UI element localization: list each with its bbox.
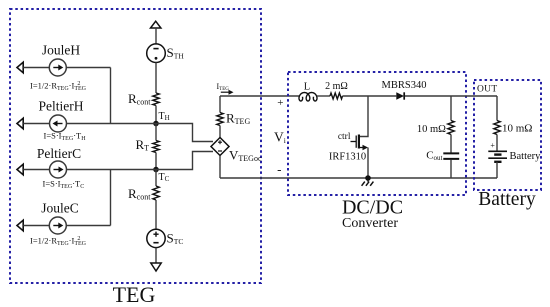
wire <box>496 135 498 152</box>
junction (source-ground rail) <box>365 175 371 181</box>
svg-text:PeltierH: PeltierH <box>39 99 84 114</box>
thermal down arrow (cold side) <box>151 263 161 271</box>
wire <box>155 153 157 170</box>
dependent source VTEGoc (diamond) <box>211 138 229 156</box>
battery cell symbol <box>488 151 507 162</box>
label PeltierH <box>39 99 84 114</box>
svg-text:JouleH: JouleH <box>42 43 80 58</box>
diode MBRS340 <box>396 92 404 99</box>
svg-text:I=S·ITEG·TC: I=S·ITEG·TC <box>43 179 85 190</box>
label JouleH <box>42 43 80 58</box>
svg-text:TEG: TEG <box>113 282 156 307</box>
wire <box>155 124 157 141</box>
wire (source) <box>367 148 369 179</box>
svg-text:Rcont: Rcont <box>128 91 151 107</box>
label JouleC <box>41 201 79 216</box>
svg-text:ITEG: ITEG <box>217 82 230 92</box>
label DC/DC <box>342 197 403 219</box>
svg-text:10 mΩ: 10 mΩ <box>502 123 532 135</box>
label MBRS340 <box>382 80 427 91</box>
wire <box>66 225 110 227</box>
resistor 10 mOhm (output) <box>448 121 454 135</box>
ground (chassis) <box>362 178 374 186</box>
svg-text:Battery: Battery <box>510 151 542 162</box>
label TC <box>159 172 170 183</box>
svg-text:Vi: Vi <box>274 130 286 145</box>
svg-text:-: - <box>277 162 281 177</box>
svg-text:Cout: Cout <box>426 150 442 162</box>
wire (battery branch) <box>496 96 498 121</box>
wire <box>219 156 221 179</box>
svg-text:I=1/2·RTEG·ITEG2: I=1/2·RTEG·ITEG2 <box>30 236 87 247</box>
wire <box>23 169 49 171</box>
PeltierH input terminal <box>17 118 23 129</box>
thermal up arrow (hot side) <box>151 21 161 28</box>
label PeltierC <box>37 146 81 161</box>
svg-text:L: L <box>304 82 310 93</box>
svg-text:STH: STH <box>167 45 185 60</box>
ITEG arrow <box>221 90 234 95</box>
svg-text:Rcont: Rcont <box>128 186 151 202</box>
label ITEG current <box>217 82 230 92</box>
capacitor Cout <box>443 153 459 159</box>
wire <box>450 96 452 121</box>
wire <box>343 95 397 97</box>
resistor RT <box>153 141 159 153</box>
label L <box>304 82 310 93</box>
label 10 mOhm (output) <box>417 124 446 135</box>
svg-text:2 mΩ: 2 mΩ <box>325 81 348 92</box>
svg-text:I=1/2·RTEG·ITEG2: I=1/2·RTEG·ITEG2 <box>30 81 87 92</box>
value PeltierC current <box>43 179 85 190</box>
value JouleH current <box>30 81 87 92</box>
temperature source STH <box>147 44 166 63</box>
label Vi <box>274 130 286 145</box>
wire <box>155 170 157 187</box>
JouleC input terminal <box>17 220 23 231</box>
resistor 10 mOhm (battery) <box>494 121 500 135</box>
Battery block boundary <box>474 80 541 190</box>
svg-text:ctrl: ctrl <box>338 132 351 142</box>
label Converter <box>342 216 398 231</box>
svg-text:STC: STC <box>167 231 184 246</box>
current source JouleC <box>49 217 66 234</box>
label Rcont (cold) <box>128 186 151 202</box>
resistor RTEG <box>217 113 223 126</box>
svg-text:I=S·ITEG·TH: I=S·ITEG·TH <box>44 131 87 142</box>
svg-text:TH: TH <box>159 111 170 122</box>
wire <box>155 200 157 229</box>
wire <box>23 123 49 125</box>
wire (TH to diamond upper stub) <box>156 124 213 142</box>
DC/DC converter block boundary <box>288 72 466 195</box>
svg-text:10 mΩ: 10 mΩ <box>417 124 446 135</box>
wire <box>23 225 49 227</box>
wire <box>317 95 330 97</box>
wire <box>155 248 157 263</box>
svg-text:RT: RT <box>136 137 150 153</box>
svg-text:Battery: Battery <box>478 189 536 210</box>
temperature source STC <box>147 229 165 247</box>
wire (PeltierH to node TH) <box>67 123 157 125</box>
label TEG <box>113 282 156 307</box>
wire (bottom rail) <box>220 177 497 179</box>
wire (top rail TEG to DC/DC) <box>220 95 299 97</box>
wire <box>155 63 157 94</box>
wire (JouleH to TH bus) <box>110 68 112 124</box>
label TH <box>159 111 170 122</box>
label + (battery) <box>490 141 495 150</box>
label STC <box>167 231 184 246</box>
svg-text:VTEGoc: VTEGoc <box>229 148 262 164</box>
TEG block boundary <box>10 9 261 283</box>
label Rcont (hot) <box>128 91 151 107</box>
svg-text:+: + <box>277 97 283 109</box>
wire (drain) <box>359 96 368 137</box>
label VTEGoc <box>229 148 262 164</box>
label Cout <box>426 150 442 162</box>
svg-text:JouleC: JouleC <box>41 201 79 216</box>
label IRF1310 <box>329 152 366 163</box>
wire <box>405 95 497 97</box>
label RTEG <box>226 111 250 127</box>
current source PeltierC <box>50 161 67 178</box>
value PeltierH current <box>44 131 87 142</box>
wire <box>450 160 452 179</box>
svg-text:MBRS340: MBRS340 <box>382 80 427 91</box>
label 10 mOhm (battery) <box>502 123 532 135</box>
svg-text:PeltierC: PeltierC <box>37 146 81 161</box>
label Battery (block) <box>478 189 536 210</box>
label 2 mOhm <box>325 81 348 92</box>
svg-text:IRF1310: IRF1310 <box>329 152 366 163</box>
label + (Vi) <box>277 97 283 109</box>
svg-text:OUT: OUT <box>477 85 497 95</box>
wire <box>219 126 221 138</box>
wire (TC to diamond lower stub) <box>156 152 213 170</box>
svg-text:TC: TC <box>159 172 170 183</box>
JouleH input terminal <box>17 62 23 73</box>
label ctrl <box>338 132 351 142</box>
node TH <box>153 121 159 127</box>
wire <box>219 96 221 113</box>
transistor IRF1310 (NMOS) <box>356 135 368 151</box>
wire (JouleC to TC bus) <box>110 170 112 226</box>
wire (PeltierC to node TC) <box>67 169 157 171</box>
svg-text:RTEG: RTEG <box>226 111 250 127</box>
svg-text:Converter: Converter <box>342 216 398 231</box>
label Battery (component) <box>510 151 542 162</box>
PeltierC input terminal <box>17 164 23 175</box>
wire <box>450 135 452 154</box>
resistor Rcont (cold) <box>153 186 159 200</box>
value JouleC current <box>30 236 87 247</box>
wire <box>496 162 498 178</box>
current source PeltierH <box>50 115 67 132</box>
wire (gate lead) <box>351 141 357 143</box>
label - (Vi) <box>277 162 281 177</box>
node TC <box>153 167 159 173</box>
resistor 2 mOhm <box>330 93 343 99</box>
label STH <box>167 45 185 60</box>
current source JouleH <box>49 59 66 76</box>
resistor Rcont (hot) <box>153 93 159 106</box>
inductor L <box>299 93 317 102</box>
wire <box>23 67 49 69</box>
wire <box>66 67 110 69</box>
wire <box>155 106 157 124</box>
label RT <box>136 137 150 153</box>
wire <box>155 28 157 44</box>
svg-text:+: + <box>490 141 495 150</box>
label OUT <box>477 85 497 95</box>
